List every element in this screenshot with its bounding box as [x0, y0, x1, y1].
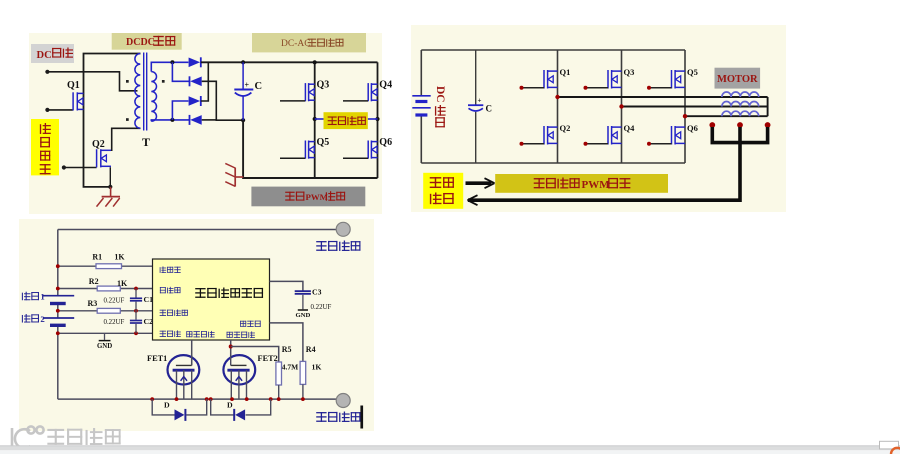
- resistor R5: [276, 362, 282, 385]
- wire: left rail upper segment: [420, 50, 422, 96]
- capacitor C1: [130, 289, 142, 311]
- svg-text:Q2: Q2: [92, 139, 105, 150]
- diode D1 (points right): [175, 409, 186, 421]
- svg-text:C: C: [486, 104, 493, 114]
- wire: DC+ terminal to transformer center tap: [47, 72, 137, 91]
- label box DC-AC全桥逆变 (DC-AC full-bridge inverter): [252, 33, 366, 52]
- capacitor C2: [130, 311, 142, 334]
- node: motor sense tap 3 red dot: [765, 122, 771, 128]
- svg-text:+: +: [478, 97, 482, 105]
- inductor motor winding phase B: [722, 102, 759, 107]
- wire: feedback line to control center (thick): [468, 127, 740, 200]
- node: Q5 gate terminal red dot: [647, 86, 651, 90]
- ground symbol near capacitor (red earth rotated left): [225, 163, 243, 186]
- svg-text:PWM: PWM: [306, 192, 329, 202]
- node: rail dot R2 row: [56, 287, 60, 291]
- node: DC+ input terminal dot: [45, 70, 49, 74]
- wire: Q4 gate lead: [343, 100, 368, 102]
- inductor motor winding phase C: [722, 111, 759, 116]
- transistor Q4 (low side): [608, 126, 622, 145]
- wire: bridge leg 2: [621, 50, 623, 163]
- node: rail dot R1 row: [56, 264, 60, 268]
- watermark text 大数跨境: [47, 429, 64, 445]
- wire: Q6 gate lead: [343, 157, 368, 159]
- wire: capacitor branch: [475, 50, 477, 163]
- svg-text:0.22UF: 0.22UF: [104, 319, 125, 326]
- node: AC output left dot: [313, 117, 317, 121]
- wire: 放电保护 gate line to FET1: [191, 340, 193, 365]
- wire: bridge left leg: [314, 62, 316, 178]
- node: motor sense tap 2 red dot: [737, 122, 743, 128]
- transistor Q2 (low side): [544, 126, 558, 145]
- svg-text:Q5: Q5: [317, 137, 330, 148]
- wire: Q5 gate lead: [280, 157, 305, 159]
- pin label 电池中点: [160, 310, 166, 316]
- pin label 电源正: [160, 266, 166, 272]
- diode D3 rectifier (points right): [189, 96, 201, 106]
- transistor Q1 (high side): [544, 70, 558, 89]
- transistor FET2 (charge MOSFET in circle): [223, 355, 255, 399]
- svg-text:C1: C1: [144, 295, 154, 304]
- wire: diode D2 bypass loop: [211, 399, 234, 415]
- svg-text:Q3: Q3: [624, 67, 635, 77]
- svg-text:GND: GND: [295, 312, 310, 319]
- battery 电池2 plates: [43, 318, 74, 325]
- wire: sense bus thick U link: [712, 127, 767, 143]
- label box MOTOR: [715, 68, 761, 89]
- node: bottom rail junction red dot: [245, 397, 249, 401]
- panel 1 background (DCDC boost + inverter schematic): [29, 33, 382, 214]
- node: bottom rail junction red dot: [269, 397, 273, 401]
- wire: 电源负 to R4 column: [270, 323, 303, 362]
- svg-text:C2: C2: [144, 317, 154, 326]
- pin label 放电保护: [186, 331, 192, 337]
- capacitor C (bus filter, polarized): [234, 62, 253, 120]
- node: Q3 gate terminal red dot: [584, 86, 588, 90]
- capacitor C3: [295, 291, 311, 309]
- svg-text:FET1: FET1: [147, 354, 167, 363]
- svg-text:Q6: Q6: [687, 123, 698, 133]
- node: phase A junction red dot: [555, 95, 559, 99]
- wire: FET2 gate lead inside circle: [230, 356, 232, 365]
- label box DC输入 (DC input): [31, 44, 74, 63]
- node: Q6 gate terminal red dot: [647, 142, 651, 146]
- label box DCDC升压 (DCDC boost): [112, 33, 182, 50]
- transistor Q5 (high side): [672, 70, 686, 89]
- node: DC- input terminal dot: [45, 108, 49, 112]
- resistor R4: [300, 361, 306, 384]
- node: + rail capacitor junction dot: [241, 60, 245, 64]
- inductor motor winding phase A: [722, 92, 759, 97]
- wire: junction up to D3 anode (blue): [172, 101, 188, 120]
- node: bottom rail junction red dot: [209, 397, 213, 401]
- ground symbol GND below C3: [298, 309, 308, 311]
- node: C1/C2 mid junction dot: [134, 309, 138, 313]
- transistor Q5 (bridge low side left): [305, 141, 314, 159]
- node: - bus capacitor junction dot: [241, 118, 245, 122]
- wire: AC output left connector: [315, 118, 324, 120]
- bottom scrollbar track: [0, 446, 900, 450]
- label box 全桥PWM控制 (full-bridge PWM control): [251, 187, 365, 207]
- diode D2 (points left): [234, 409, 245, 421]
- wire: bridge right leg: [377, 62, 379, 178]
- svg-text:D: D: [227, 401, 233, 410]
- wire: phase B line to motor: [622, 106, 768, 108]
- label 输出负极 (output negative): [316, 412, 326, 422]
- node: bottom rail junction red dot: [205, 397, 209, 401]
- wire: DC bus + rail (D1 cathode to bridge): [201, 61, 378, 63]
- transistor Q6 (low side): [672, 126, 686, 145]
- svg-text:PWM: PWM: [582, 179, 611, 191]
- svg-text:Q5: Q5: [687, 67, 698, 77]
- node: C1 top junction dot: [134, 287, 138, 291]
- wire: D2 anode to negative bus: [202, 81, 243, 120]
- transistor FET1 (discharge MOSFET in circle): [168, 355, 200, 399]
- transistor Q6 (bridge low side right): [368, 141, 377, 159]
- node: charge-protect junction red dot: [229, 345, 233, 349]
- svg-text:1: 1: [40, 292, 44, 302]
- node: C2 bottom junction dot: [134, 331, 138, 335]
- node: bottom rail junction red dot: [150, 397, 154, 401]
- node: rail dot R3 row: [56, 309, 60, 313]
- transistor Q3 (high side): [608, 70, 622, 89]
- pin label 电池正: [160, 287, 166, 293]
- svg-text:1K: 1K: [114, 253, 125, 262]
- svg-text:T: T: [142, 135, 150, 149]
- transistor Q3 (bridge high side left): [305, 83, 314, 101]
- panel 2 background (three-phase bridge motor drive): [411, 25, 786, 212]
- wire: bridge leg 1: [557, 50, 559, 163]
- label box 推挽控制 (push-pull control), vertical: [31, 119, 59, 175]
- transformer T primary winding: [135, 54, 140, 129]
- wire: diode D1 bypass loop: [152, 399, 174, 415]
- transistor Q2 (push-pull MOSFET): [97, 149, 111, 167]
- bottom scrollbar top edge line: [0, 445, 900, 446]
- wire: left rail lower segment: [420, 115, 422, 163]
- wire: R5 to bottom rail: [278, 385, 280, 399]
- text cursor bar artifact: [360, 406, 363, 429]
- node: R5 bottom rail dot: [277, 397, 281, 401]
- label 电池1: [22, 292, 31, 301]
- wire: secondary top to rectifier (blue): [151, 62, 188, 71]
- wire: R2 row (电池正): [58, 288, 97, 290]
- IC box 充放电保护板 (charge/discharge protection board): [153, 259, 270, 340]
- svg-text:DC-AC: DC-AC: [281, 39, 311, 49]
- wire: junction to R5 column: [231, 347, 279, 363]
- wire: R1 row (电源正): [58, 265, 96, 267]
- terminal: output positive circle: [336, 222, 350, 236]
- wire: Q6 gate lead: [649, 143, 672, 145]
- wire: top DC rail: [421, 49, 685, 51]
- label box 交流输出 (AC output): [324, 112, 368, 129]
- diode D1 rectifier (points right): [189, 57, 201, 67]
- title 充放电保护板: [195, 288, 205, 298]
- scrollbar corner box: [880, 441, 899, 449]
- node: R4 bottom rail dot: [301, 397, 305, 401]
- wire: motor star connection: [767, 97, 769, 116]
- svg-text:0.22UF: 0.22UF: [311, 304, 332, 311]
- wire: 充电保护 gate line to FET2: [230, 340, 232, 356]
- wire: Q3 gate lead: [280, 100, 305, 102]
- wire: D3 cathode up to + rail: [201, 62, 209, 101]
- svg-text:FET2: FET2: [258, 354, 278, 363]
- wire: left rail segments with battery gaps: [57, 230, 59, 400]
- ground symbol GND below battery rows: [99, 333, 111, 340]
- wire: negative bus down to bottom rail and bridge bottom: [243, 120, 377, 178]
- orange logo arc bottom-right corner: [891, 448, 900, 454]
- resistor R2: [97, 286, 120, 291]
- svg-text:4.7M: 4.7M: [282, 363, 298, 372]
- wire: Q4 gate lead: [586, 143, 609, 145]
- wire: Q1 gate lead: [522, 87, 545, 89]
- svg-text:DCDC: DCDC: [126, 37, 155, 48]
- svg-text:R4: R4: [306, 345, 316, 354]
- bottom scrollbar lower strip: [0, 450, 900, 454]
- wire: control center to PWM box arrow (thick): [466, 181, 492, 185]
- node: phase C junction red dot: [683, 114, 687, 118]
- battery DC input (blue plates): [412, 96, 430, 115]
- wire: FET1 gate lead inside circle: [191, 355, 193, 365]
- svg-text:R5: R5: [282, 345, 292, 354]
- pin label 充电保护: [227, 332, 233, 338]
- wire: Q2 source to ground node: [109, 167, 111, 187]
- svg-text:R2: R2: [89, 277, 99, 286]
- wire: Q2 gate lead: [522, 143, 545, 145]
- wire: bottom rail: [58, 398, 336, 400]
- transformer T core: [143, 53, 145, 131]
- wire: secondary bottom to rectifier (blue): [151, 120, 190, 121]
- panel 3 background (battery protection board schematic): [19, 219, 374, 431]
- svg-text:Q1: Q1: [560, 67, 571, 77]
- wire: D4 anode joins negative bus: [202, 119, 217, 121]
- node: bridge top-left junction dot: [313, 60, 317, 64]
- label 电池2: [22, 314, 31, 323]
- node: bottom rail junction red dot: [175, 397, 179, 401]
- wire: board to C3: [270, 281, 303, 290]
- svg-text:0.22UF: 0.22UF: [104, 297, 125, 304]
- pin label 电池负: [160, 331, 166, 337]
- svg-text:C: C: [255, 81, 263, 92]
- svg-text:+: +: [245, 80, 250, 89]
- wire: transformer primary bottom to Q2 drain: [112, 128, 141, 151]
- svg-text:DC: DC: [37, 50, 52, 61]
- svg-text:D: D: [164, 401, 170, 410]
- diode D4 rectifier (points left): [190, 115, 202, 125]
- node: rectifier junction dot lower: [170, 118, 174, 122]
- pin label 电源负: [240, 321, 246, 327]
- svg-text:Q3: Q3: [317, 80, 330, 91]
- wire: bridge leg 3: [684, 50, 686, 163]
- label 输出正极 (output positive): [316, 241, 326, 251]
- svg-text:Q4: Q4: [624, 123, 636, 133]
- svg-text:GND: GND: [97, 343, 112, 350]
- wire: output positive top rail: [58, 229, 336, 231]
- wire: R3 row (电池中点): [58, 310, 97, 312]
- node: Q4 gate terminal red dot: [584, 142, 588, 146]
- svg-text:MOTOR: MOTOR: [717, 74, 758, 85]
- svg-text:DC: DC: [434, 86, 446, 103]
- wire: battery negative row (电池负): [58, 332, 153, 334]
- ground symbol below Q2 (red hatched earth): [97, 187, 121, 207]
- svg-text:1K: 1K: [312, 363, 322, 372]
- svg-text:Q2: Q2: [560, 123, 571, 133]
- label box 三相全桥PWM控制 (three-phase full-bridge PWM control): [495, 174, 668, 193]
- watermark logo icon: [12, 426, 44, 448]
- transistor Q4 (bridge high side right): [368, 83, 377, 101]
- node: Q2 gate wire dot: [62, 165, 66, 169]
- capacitor C (bus filter): [468, 97, 483, 111]
- wire: Q1 drain rail (primary top to ground node): [84, 54, 141, 187]
- node: ground junction dot: [108, 185, 112, 189]
- label box 控制中心 (control center): [423, 173, 463, 209]
- svg-text:R3: R3: [88, 299, 98, 308]
- wire: Q5 gate lead: [649, 87, 672, 89]
- node: Q2 gate terminal red dot: [520, 142, 524, 146]
- node: phase B junction red dot: [619, 104, 623, 108]
- transformer T secondary winding: [151, 72, 156, 122]
- node: Q1 gate terminal red dot: [520, 86, 524, 90]
- svg-text:1K: 1K: [117, 279, 128, 288]
- node: rail dot bottom row: [56, 331, 60, 335]
- diode D2 rectifier (points left): [190, 76, 202, 86]
- svg-text:C3: C3: [312, 288, 322, 297]
- label DC输入 vertical (DC input): [434, 86, 446, 103]
- wire: DC- terminal to Q1 gate: [47, 109, 73, 111]
- wire: AC output right connector: [368, 118, 378, 120]
- node: motor sense tap 1 red dot: [709, 122, 715, 128]
- svg-text:R1: R1: [92, 253, 102, 262]
- svg-text:Q6: Q6: [379, 137, 392, 148]
- arrowhead: feedback into control center: [468, 195, 478, 205]
- wire: R4 to bottom rail: [302, 384, 304, 399]
- node: bottom rail junction red dot: [230, 397, 234, 401]
- wire: phase A line to motor: [558, 96, 768, 98]
- resistor R3: [97, 308, 120, 313]
- svg-text:Q1: Q1: [67, 80, 80, 91]
- node: AC output right dot: [375, 117, 379, 121]
- battery 电池1 plates: [43, 296, 74, 304]
- resistor R1: [96, 264, 122, 269]
- node: rectifier junction dot upper: [170, 60, 174, 64]
- wire: push-pull control to Q2 gate: [64, 167, 97, 169]
- wire: Q3 gate lead: [586, 87, 609, 89]
- terminal: output negative circle: [336, 394, 350, 408]
- transformer polarity dots: [126, 80, 129, 83]
- wire: phase C line to motor: [685, 115, 768, 117]
- wire: bottom DC rail: [421, 162, 685, 164]
- transistor Q1 (push-pull MOSFET): [73, 92, 83, 110]
- wire: junction down to D2 cathode (blue): [172, 62, 189, 81]
- svg-text:2: 2: [40, 314, 45, 324]
- arrowhead: into PWM box: [485, 178, 495, 188]
- svg-text:Q4: Q4: [379, 80, 392, 91]
